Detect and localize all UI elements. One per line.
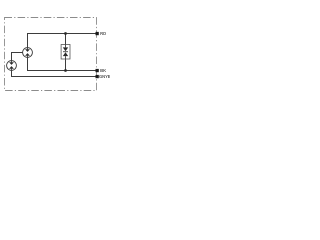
wire: F2 bottom down to GNYE line bbox=[11, 70, 13, 77]
enclosure border (dash-dot device boundary) bbox=[5, 18, 97, 91]
spark gap F2 (lower circle) bbox=[7, 61, 17, 71]
terminal BK bbox=[96, 69, 99, 72]
wire: drop from RD line corner down to spark gap F1 bbox=[27, 33, 29, 48]
svg-text:RD: RD bbox=[100, 31, 106, 36]
wire: GNYE line bbox=[12, 76, 96, 78]
suppressor diode (boxed bidirectional TVS) bbox=[61, 45, 70, 60]
wire: suppressor branch upper bbox=[65, 34, 67, 45]
spark gap F1 (upper circle) bbox=[23, 48, 33, 58]
junction: suppressor branch on RD line bbox=[64, 32, 67, 35]
wire: link from F1 left side to F2 top bbox=[12, 53, 23, 61]
terminal RD bbox=[96, 32, 99, 35]
terminal GNYE bbox=[96, 75, 99, 78]
wire: F1 bottom down to BK line bbox=[27, 57, 29, 71]
svg-text:GNYE: GNYE bbox=[99, 74, 110, 79]
junction: suppressor branch on BK line bbox=[64, 69, 67, 72]
svg-text:BK: BK bbox=[100, 68, 106, 73]
wire: RD top line bbox=[28, 33, 96, 35]
wire: suppressor branch lower bbox=[65, 59, 67, 71]
wire: BK line bbox=[28, 70, 96, 72]
